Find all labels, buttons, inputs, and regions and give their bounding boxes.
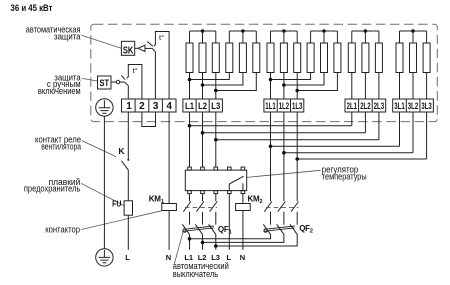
- heating element 1L-B3: [297, 31, 341, 91]
- heating element L-B2: [203, 31, 247, 85]
- heater bank 1L-B star bus: [311, 30, 338, 32]
- heating element L-A2: [199, 31, 206, 99]
- heating element 1L-B2: [284, 31, 328, 85]
- junction dot L2 feed: [201, 241, 205, 245]
- heating element 2L-2: [362, 31, 369, 99]
- junction dot bus 1L1: [269, 145, 273, 149]
- terminal block 1 2 3 4: [122, 99, 177, 112]
- QF1 trip bar: [183, 226, 214, 231]
- label "регулятор температуры": [322, 165, 367, 182]
- junction dot L-B1 to L1: [188, 78, 192, 82]
- svg-text:1L3: 1L3: [292, 101, 302, 111]
- wire 1L3 terminal down to KM2 contact: [296, 112, 298, 201]
- KM2 mechanical link dashes: [266, 207, 298, 209]
- KM2 contact pole 3: [291, 202, 299, 225]
- heating element L-B1: [190, 31, 233, 80]
- wire 1L1 terminal down to KM2 contact: [270, 112, 272, 201]
- bus 1L2 to 3L2: [284, 112, 413, 153]
- connector triangle: [138, 45, 145, 51]
- bus 1L3 to 3L3: [297, 112, 426, 159]
- junction dot bus L3: [214, 138, 218, 142]
- svg-text:2L2: 2L2: [360, 101, 370, 111]
- svg-text:L1: L1: [184, 253, 193, 262]
- PE ground symbol upper: [96, 99, 113, 116]
- circuit breaker QF1 pole 2 blade: [195, 224, 203, 235]
- leader to FU: [81, 183, 124, 205]
- KM1 mechanical link dashes: [185, 207, 217, 209]
- svg-text:t°: t°: [133, 66, 138, 75]
- junction dot L-B3 to L3: [214, 89, 218, 93]
- heating element 1L-B1: [271, 31, 315, 80]
- svg-text:контактор: контактор: [45, 225, 80, 235]
- ST contact circle: [116, 80, 119, 83]
- svg-text:1L2: 1L2: [279, 101, 289, 111]
- heating element 1L-A2: [280, 31, 287, 99]
- leader to SK: [82, 35, 122, 48]
- junction dot bus L1: [188, 124, 192, 128]
- junction dot bus L2: [201, 131, 205, 135]
- heating element 2L-1: [348, 31, 355, 99]
- circuit breaker QF2 pole 2 blade: [277, 224, 285, 235]
- wire 1L2 terminal down to KM2 contact: [283, 112, 285, 201]
- thermostat t° box (terminals 1-2): [127, 65, 142, 100]
- terminal block 3L1 3L2 3L3: [393, 99, 434, 112]
- SK switch blade: [147, 42, 153, 47]
- wire FU to L: [127, 215, 129, 250]
- svg-text:N: N: [240, 253, 245, 262]
- label "защита с ручным включением": [38, 72, 81, 95]
- svg-text:вентилятора: вентилятора: [41, 142, 81, 152]
- QF2 pole 2 wire to L2 feed: [203, 235, 284, 243]
- label "автоматическая защита": [26, 25, 81, 42]
- terminal block 1L1 1L2 1L3: [264, 99, 304, 112]
- star point dot bank 2L: [364, 29, 368, 33]
- QF2 latch circle: [264, 229, 267, 232]
- svg-text:36 и 45 кВт: 36 и 45 кВт: [11, 3, 53, 14]
- junction dot L-B2 to L2: [201, 83, 205, 87]
- svg-text:L1: L1: [185, 101, 194, 111]
- enclosure dashed border: [91, 24, 438, 121]
- svg-text:L: L: [125, 253, 130, 262]
- wire regulator pin4 down to L: [228, 194, 230, 250]
- thermostat t° box (terminals 3-4): [154, 32, 169, 100]
- circuit breaker QF2 pole 1 blade: [263, 224, 271, 235]
- svg-text:ST: ST: [100, 78, 110, 89]
- wire K to FU: [127, 170, 129, 201]
- circuit breaker QF1 pole 3 blade: [209, 224, 217, 235]
- bus L1 to 2L1: [190, 112, 352, 126]
- svg-text:N: N: [166, 253, 171, 262]
- wire KM2 coil to N: [242, 211, 244, 250]
- bus L2 to 2L2: [203, 112, 366, 133]
- wire regulator pin5 down to KM2 coil: [242, 194, 244, 204]
- regulator pin 1 bottom: [188, 191, 192, 194]
- heating element L-A3: [212, 31, 219, 99]
- leader to QF1: [174, 231, 183, 264]
- wire circle to jog: [120, 81, 125, 83]
- svg-text:защита: защита: [54, 32, 81, 42]
- svg-text:KM1: KM1: [149, 194, 164, 205]
- heating element 3L-3: [423, 31, 430, 99]
- regulator pin 3 bottom: [214, 191, 218, 194]
- svg-text:3L2: 3L2: [408, 101, 418, 111]
- heating element 3L-2: [410, 31, 417, 99]
- heater bank 1L-A star bus: [271, 30, 298, 32]
- circuit breaker QF1 pole 1 blade: [182, 224, 190, 235]
- svg-text:выключатель: выключатель: [173, 269, 219, 279]
- QF2 trip bar: [264, 226, 295, 231]
- bus L3 to 2L3: [216, 112, 379, 140]
- heater bank 3L star bus: [400, 30, 427, 32]
- junction dot 1L-B2: [282, 83, 286, 87]
- regulator pin 5 bottom: [241, 191, 245, 194]
- leader to KM1 coil: [81, 211, 162, 230]
- svg-text:температуры: температуры: [322, 171, 367, 181]
- regulator internal switch: [229, 176, 243, 190]
- svg-text:L3: L3: [211, 101, 220, 111]
- star point dot bank 1L-A: [282, 29, 286, 33]
- svg-text:1L1: 1L1: [265, 101, 275, 111]
- regulator pin 4 bottom: [228, 191, 232, 194]
- leader to K contact: [82, 141, 116, 157]
- wire L2 terminal down to regulator pin 2: [202, 112, 204, 167]
- svg-text:QF2: QF2: [299, 224, 313, 235]
- heater bank L-A star bus: [190, 30, 216, 32]
- QF1 pole 3 wire down: [215, 235, 217, 250]
- star point dot bank 1L-B: [322, 29, 326, 33]
- heating element L-B3: [216, 31, 260, 91]
- bus 1L1 to 3L1: [271, 112, 400, 146]
- QF1 latch circle: [183, 229, 186, 232]
- manual reset protector ST box: [98, 76, 112, 89]
- junction dot 1L-B1: [269, 78, 273, 82]
- ground wire upper to lower: [103, 116, 105, 249]
- heating element 3L-1: [396, 31, 403, 99]
- wire triangle to SK contact: [145, 47, 152, 49]
- svg-text:3: 3: [153, 101, 159, 112]
- star point dot bank 3L: [411, 29, 415, 33]
- heating element 1L-A1: [267, 31, 274, 99]
- svg-text:L2: L2: [198, 253, 207, 262]
- SK contact jog to box: [152, 48, 155, 51]
- leader to ST: [82, 78, 98, 81]
- wire ST to contact circle: [111, 81, 116, 83]
- KM1 contact pole 2: [196, 194, 204, 225]
- label "контакт реле вентилятора": [35, 135, 81, 152]
- circuit breaker QF2 pole 3 blade: [290, 224, 298, 235]
- svg-text:t°: t°: [159, 33, 164, 42]
- KM1 contact pole 3: [210, 194, 218, 225]
- star point dot bank L-B: [241, 29, 245, 33]
- QF2 pole 1 wire to L1 feed: [190, 235, 271, 239]
- wire terminal 1 down: [127, 112, 129, 159]
- fan relay contact K blade: [122, 161, 129, 170]
- heater bank 2L star bus: [352, 30, 379, 32]
- label "автоматический выключатель": [173, 261, 229, 279]
- junction dot bus 1L2: [282, 151, 286, 155]
- regulator pin 2 top: [201, 167, 205, 170]
- automatic protection SK box: [121, 41, 134, 56]
- svg-text:SK: SK: [123, 45, 134, 56]
- svg-text:L2: L2: [198, 101, 207, 111]
- wire L1 terminal down to regulator pin 1: [189, 112, 191, 167]
- terminal block 2L1 2L2 2L3: [345, 99, 386, 112]
- junction dot bus 1L3: [295, 157, 299, 161]
- wire KM1 coil to N: [168, 211, 170, 250]
- svg-text:2L3: 2L3: [374, 101, 384, 111]
- fuse FU: [124, 201, 132, 215]
- KM2 contact pole 1: [264, 202, 272, 225]
- QF1 pole 2 wire down: [202, 235, 204, 250]
- svg-text:включением: включением: [38, 86, 81, 96]
- PE ground symbol lower: [96, 249, 113, 266]
- regulator pin 3 top: [214, 167, 218, 170]
- wire L3 terminal down to regulator pin 3: [215, 112, 217, 167]
- label "плавкий предохранитель": [24, 177, 81, 194]
- ST switch blade: [121, 75, 125, 79]
- contactor coil KM2: [236, 204, 251, 211]
- regulator pin 1 top: [188, 167, 192, 170]
- svg-text:FU: FU: [112, 199, 121, 209]
- leader to regulator box: [247, 170, 321, 177]
- junction dot 1L-B3: [295, 89, 299, 93]
- heating element 1L-A3: [294, 31, 301, 99]
- junction dot L1 feed: [188, 237, 192, 241]
- svg-text:L: L: [227, 253, 232, 262]
- svg-text:2L1: 2L1: [347, 101, 357, 111]
- regulator pin 5 top: [241, 167, 245, 170]
- junction dot L3 feed: [214, 244, 218, 248]
- heating element 2L-3: [375, 31, 382, 99]
- QF2 pole 3 wire to L3 feed: [216, 235, 297, 246]
- regulator pin 4 top: [228, 167, 232, 170]
- star point dot bank L-A: [201, 29, 205, 33]
- heating element L-A1: [186, 31, 193, 99]
- svg-text:2: 2: [139, 101, 145, 112]
- wire terminal 4 down to KM1 coil: [168, 112, 170, 204]
- terminal block L1 L2 L3: [183, 99, 223, 112]
- temperature regulator box: [185, 170, 246, 191]
- jumper terminals 2-3: [142, 112, 156, 127]
- svg-text:L3: L3: [211, 253, 220, 262]
- svg-text:4: 4: [166, 101, 172, 112]
- contactor coil KM1: [162, 204, 177, 211]
- K contact fixed dot: [127, 159, 129, 161]
- QF1 pole 1 wire down: [189, 235, 191, 250]
- KM2 contact pole 2: [278, 202, 286, 225]
- wire SK to triangle: [135, 47, 138, 49]
- regulator pin 2 bottom: [201, 191, 205, 194]
- svg-text:3L1: 3L1: [394, 101, 404, 111]
- svg-text:3L3: 3L3: [421, 101, 431, 111]
- ST contact jog to box: [124, 82, 128, 86]
- svg-text:1: 1: [126, 101, 132, 112]
- svg-text:предохранитель: предохранитель: [24, 184, 81, 194]
- KM1 contact pole 1: [183, 194, 191, 225]
- heater bank L-B star bus: [229, 30, 256, 32]
- svg-text:K: K: [118, 146, 125, 156]
